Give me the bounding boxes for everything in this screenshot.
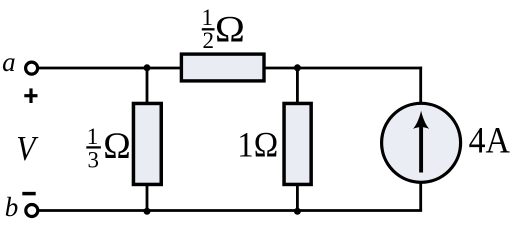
wire top: resistor R1 to right corner — [265, 67, 423, 70]
resistor R3 (1 ohm, vertical) — [284, 103, 311, 184]
wire: middle branch (top node to resistor R3) — [296, 68, 299, 104]
svg-text:1: 1 — [202, 5, 214, 30]
resistor R2 (1/3 ohm, vertical) — [133, 103, 161, 184]
wire: current source to bottom corner — [419, 182, 422, 211]
junction: top node between R1 and R2 — [144, 64, 151, 71]
resistor R1 (1/2 ohm, horizontal) — [181, 54, 264, 81]
svg-text:Ω: Ω — [215, 9, 245, 50]
junction: top node between R1 and R3 — [294, 64, 301, 71]
value label R1: 1/2 ohm — [202, 5, 245, 53]
junction: bottom node at R3 — [294, 208, 301, 215]
svg-text:b: b — [5, 192, 19, 222]
label: plus sign of V — [24, 88, 37, 103]
svg-text:3: 3 — [87, 148, 99, 173]
wire: left branch (top node to resistor R2) — [146, 68, 149, 104]
current source I1 circle — [382, 103, 461, 182]
wire top: node a to resistor R1 — [38, 67, 181, 70]
value label R2: 1/3 ohm — [86, 124, 131, 172]
junction: bottom node at R2 — [144, 208, 151, 215]
wire: right branch top (corner to current source) — [419, 67, 422, 104]
label: minus sign of V — [22, 192, 35, 196]
wire bottom: node b to right corner — [38, 209, 422, 212]
svg-text:a: a — [2, 47, 16, 77]
terminal node b (open circle) — [26, 205, 38, 217]
svg-text:1: 1 — [87, 124, 99, 149]
wire: left branch (resistor R2 to bottom node) — [146, 185, 149, 211]
terminal node a (open circle) — [26, 62, 38, 74]
svg-text:2: 2 — [202, 28, 214, 53]
svg-text:4A: 4A — [469, 120, 511, 161]
wire: middle branch (resistor R3 to bottom node) — [296, 185, 299, 211]
svg-text:1Ω: 1Ω — [237, 124, 278, 164]
current source I1 arrow — [413, 111, 429, 173]
svg-text:Ω: Ω — [103, 126, 131, 167]
